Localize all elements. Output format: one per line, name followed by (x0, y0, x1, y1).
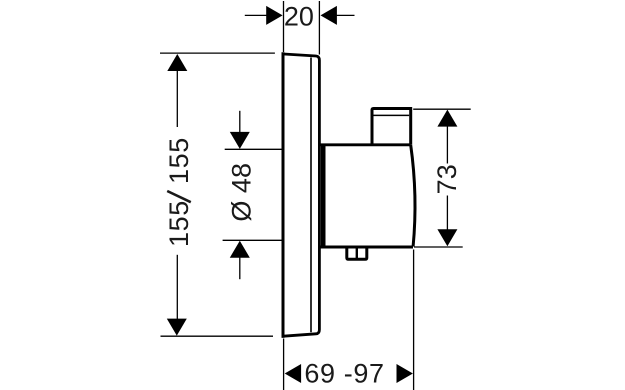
plate face inner line (310, 58, 312, 333)
dim line lower segment (176, 255, 178, 321)
extension line top (160, 52, 275, 54)
svg-text:155: 155 (164, 137, 194, 184)
stub divider (356, 249, 358, 259)
arrowhead left-pointing (321, 6, 337, 25)
arrowhead up (167, 54, 187, 71)
extension line left (283, 339, 285, 390)
dim line below (239, 256, 241, 279)
svg-text:73: 73 (432, 164, 462, 194)
arrowhead right-pointing (266, 6, 282, 25)
arrowhead left-pointing (285, 364, 301, 383)
dimension 155/155 (left) (160, 53, 275, 336)
extension line bottom (223, 239, 283, 241)
extension line top (413, 108, 471, 110)
arrow line left (245, 14, 268, 16)
dimension 73 (right) (413, 109, 471, 247)
bottom stub (check valve) (347, 247, 367, 259)
label 155/155 slash (167, 191, 191, 202)
dimension 69-97 (bottom) (284, 250, 414, 390)
dim line above (239, 111, 241, 134)
arrowhead right-pointing (397, 364, 413, 383)
svg-text:Ø 48: Ø 48 (226, 163, 256, 222)
arrowhead up (437, 110, 457, 127)
extension line left (283, 1, 285, 52)
extension line top (225, 148, 283, 150)
extension line right (318, 1, 320, 55)
svg-text:20: 20 (284, 2, 314, 32)
dim line upper segment (176, 71, 178, 128)
extension line bottom (414, 246, 463, 248)
svg-text:155: 155 (164, 200, 194, 247)
stop protrusion on top of body (372, 109, 411, 145)
arrowhead down (437, 229, 457, 246)
extension line right (413, 250, 415, 390)
svg-text:69 -97: 69 -97 (304, 359, 384, 389)
valve body bottom edge (320, 246, 413, 249)
valve body top edge (320, 143, 411, 146)
dimension diameter 48 (223, 111, 283, 279)
protrusion inner line (374, 114, 410, 116)
arrowhead down (230, 132, 250, 149)
extension line bottom (161, 335, 274, 337)
arrowhead down (167, 319, 187, 336)
arrowhead up (230, 241, 250, 258)
arrow line right (336, 14, 355, 16)
valve body left edge (321, 144, 326, 248)
dim line upper segment (446, 126, 448, 164)
escutcheon plate outline (282, 52, 320, 337)
dimension 20 (top) (245, 1, 355, 55)
valve body right curved edge (411, 145, 415, 247)
dim line lower segment (446, 196, 448, 230)
